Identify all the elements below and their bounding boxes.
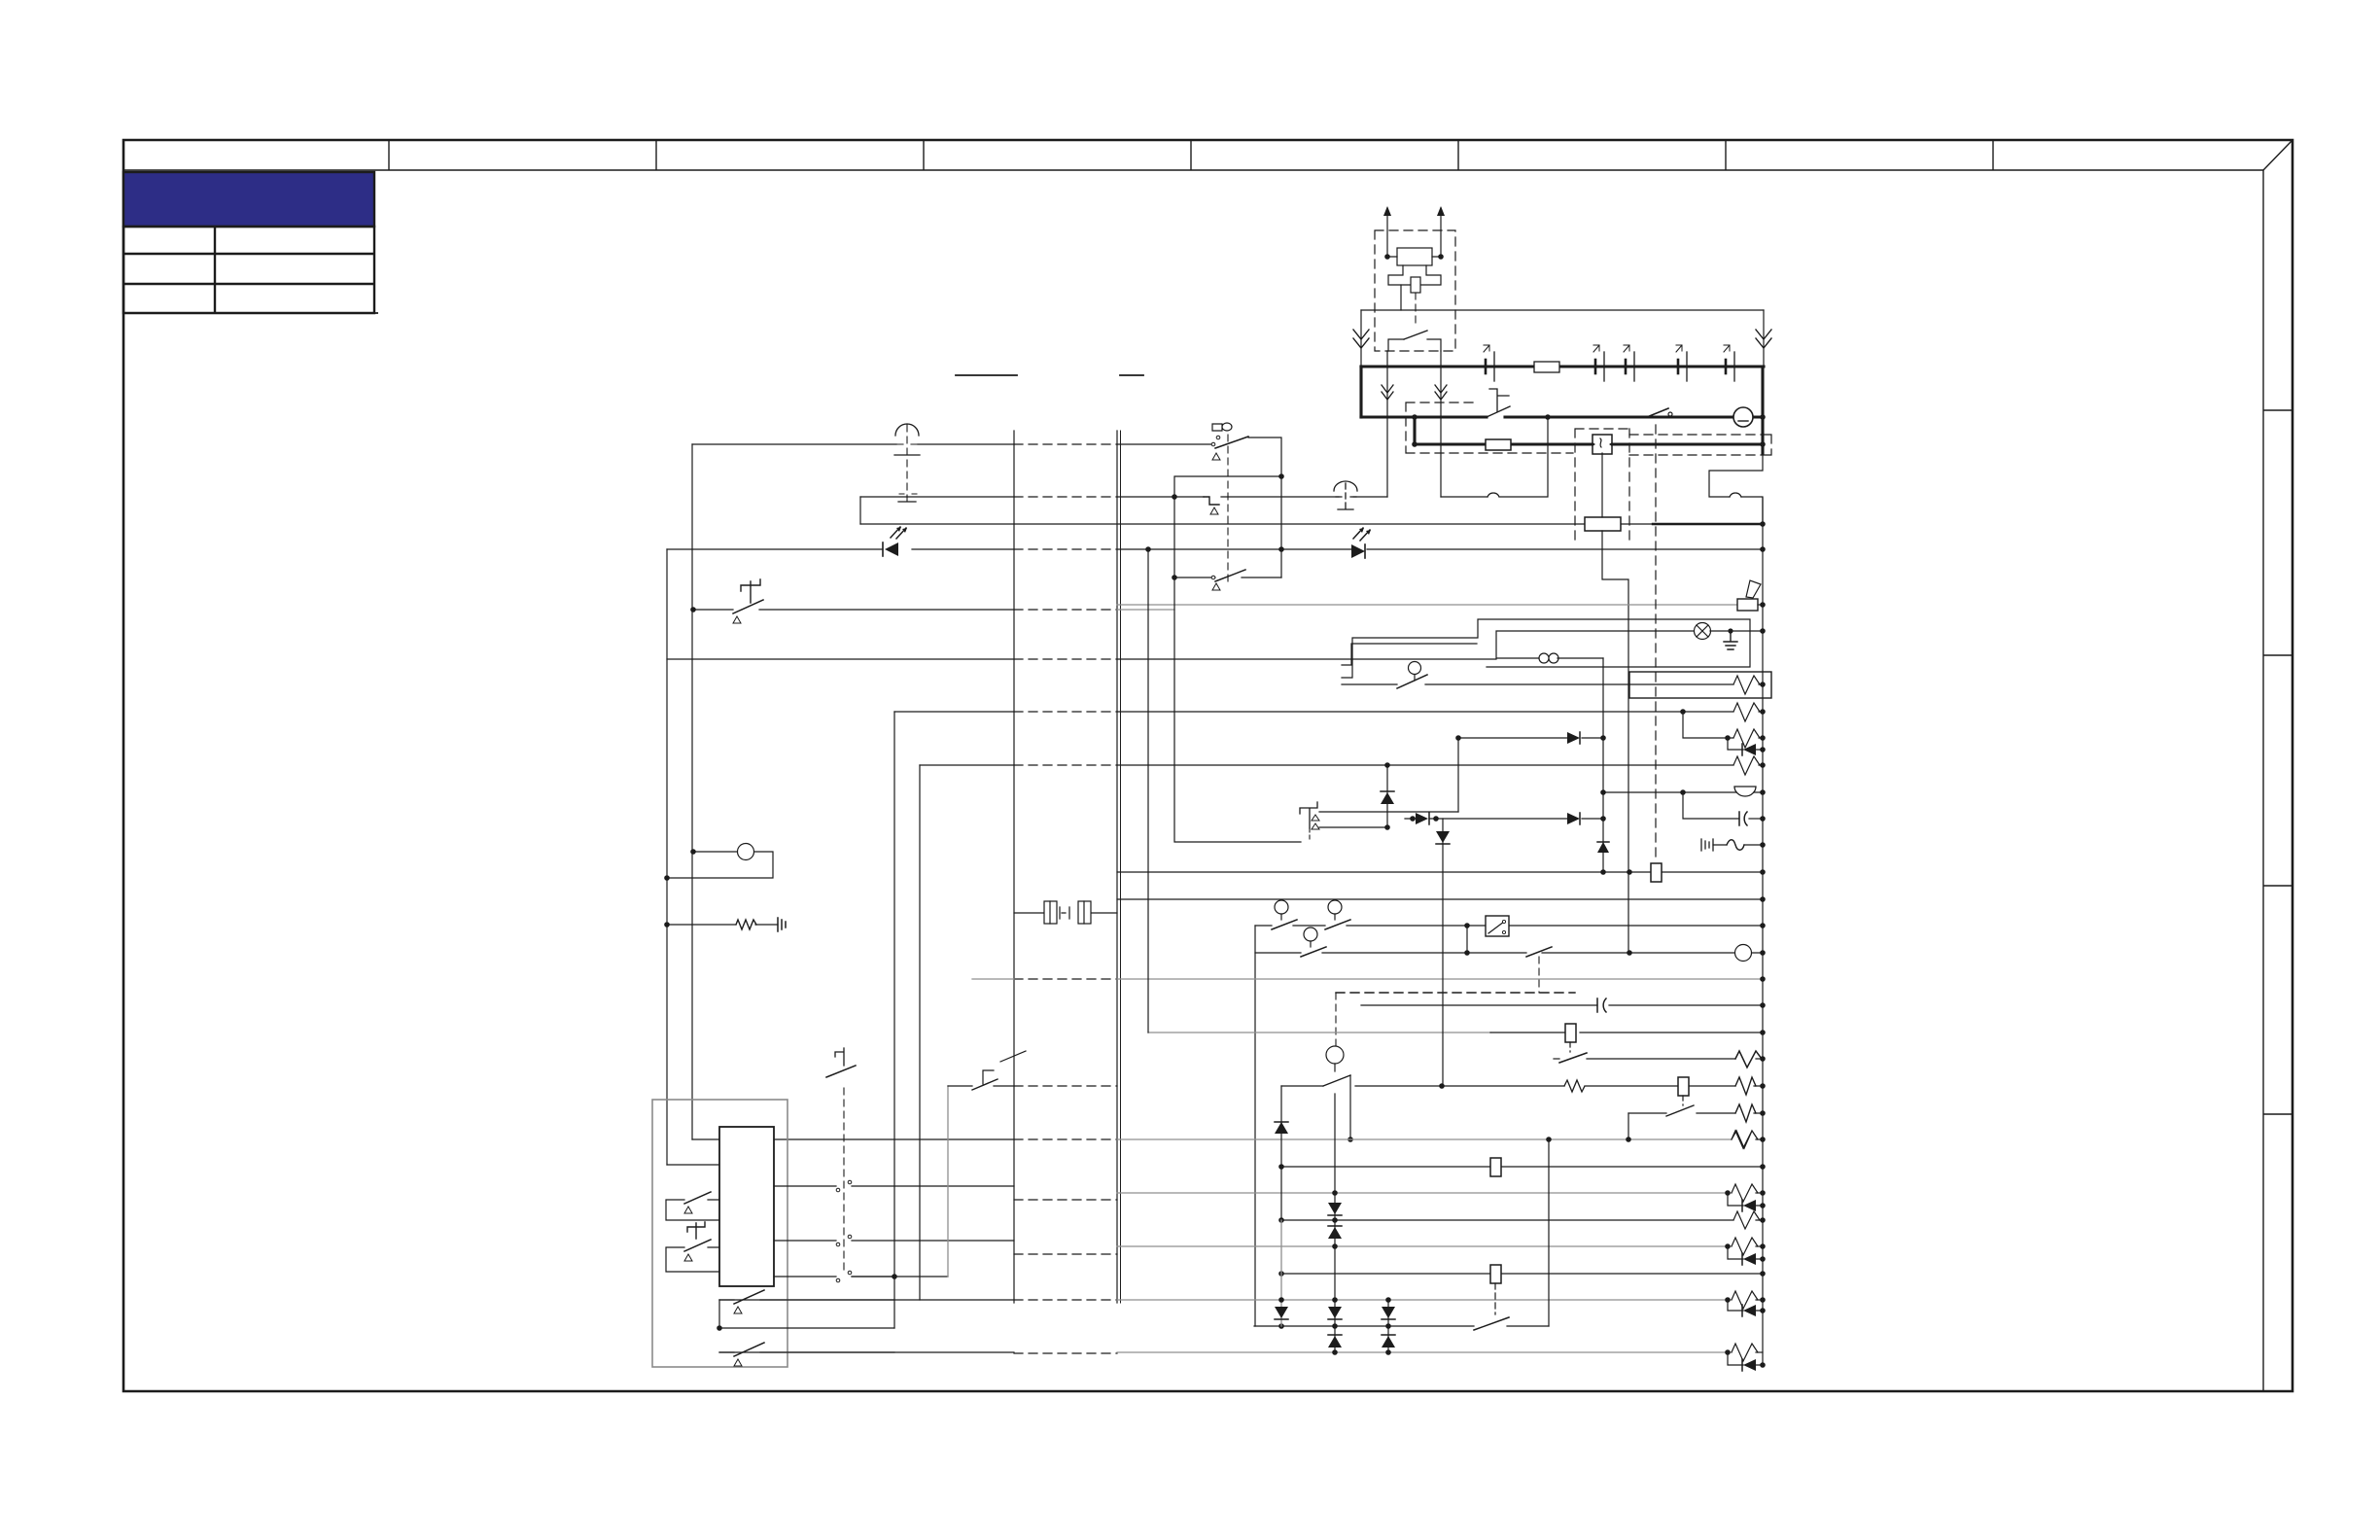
resistor box row 704 bbox=[1629, 672, 1771, 698]
wire dashed row 511 bbox=[1014, 496, 1117, 498]
ignition switch contact row457 bbox=[1215, 437, 1248, 448]
small element bbox=[1411, 277, 1420, 293]
diode column 1484 bbox=[1442, 819, 1444, 1086]
thermal sender row 869 bbox=[1713, 844, 1763, 846]
wire from ignition switch to accessory loop bbox=[1248, 437, 1281, 577]
battery cell 3 bbox=[1624, 345, 1634, 381]
title block blue banner bbox=[123, 172, 374, 227]
float sender circle bbox=[1326, 1046, 1344, 1064]
block lower switch row 1337 bbox=[719, 1299, 894, 1301]
row 1172 wire long bbox=[692, 1138, 1014, 1140]
resistor row 787 bbox=[1733, 756, 1760, 775]
node dots row A bbox=[1412, 414, 1417, 420]
twist-pair connector bbox=[1539, 653, 1558, 663]
ignition key symbol bbox=[1212, 423, 1232, 431]
row 1227 grey wire bbox=[1117, 1192, 1732, 1194]
dashed link from switch 1583 down bbox=[1538, 957, 1540, 993]
diode stack x1318 rows1337-1364 bbox=[1280, 1086, 1282, 1220]
connector column x=933 bbox=[894, 424, 920, 502]
lamp enclosure inner bbox=[1496, 631, 1696, 658]
grey wire row 622 to horn bbox=[1117, 604, 1736, 606]
diode column 1427 bbox=[1386, 765, 1388, 827]
left segment row 1313 bbox=[852, 1276, 948, 1277]
horn speaker bbox=[1737, 599, 1758, 611]
vertical from twist connector down bbox=[1602, 658, 1604, 872]
connector pair inline between harness lines bbox=[1014, 901, 1117, 924]
feeder verticals into block zone bbox=[893, 712, 895, 1328]
dashed enclosure fuse block left bbox=[1406, 402, 1573, 453]
diode branch row 1240 bbox=[1728, 1193, 1763, 1206]
switch operator T bbox=[741, 579, 760, 603]
row 787 wire bbox=[920, 764, 1733, 766]
drop 1731 to row 759 bbox=[1683, 712, 1733, 738]
diode stack x1373 rows1337-1391 bbox=[1334, 1094, 1336, 1352]
inner U body bbox=[1388, 265, 1441, 285]
wire dashed row 1290 bbox=[1014, 1253, 1117, 1255]
row 1200 wire bbox=[1281, 1166, 1763, 1168]
row 1145 wire bbox=[1628, 1112, 1763, 1114]
switch loop 1 bbox=[666, 1200, 719, 1220]
battery cell 2 bbox=[1593, 345, 1604, 381]
key switch dashed shaft bbox=[1227, 435, 1229, 583]
left drop to bus with chevron bbox=[1360, 310, 1362, 367]
right border zone ticks bbox=[2263, 410, 2292, 1114]
battery cell 1 bbox=[1484, 345, 1494, 381]
sender gauge 2 bbox=[1325, 920, 1350, 929]
dashed wire crossings inside harness bbox=[1014, 444, 1117, 1353]
lead wire up with arrow (left) bbox=[1386, 208, 1388, 257]
pushbutton switch assembly bbox=[1300, 802, 1317, 828]
row 511 wire bbox=[860, 496, 1387, 498]
link row A to row B (thick) bbox=[1413, 417, 1416, 444]
wire dashed row 1234 bbox=[1014, 1199, 1117, 1201]
dashed connector column x868 bbox=[843, 1088, 845, 1274]
lamp enclosure outline outer bbox=[1342, 619, 1750, 678]
diode branch row 771 bbox=[1728, 738, 1763, 750]
left riser x885 bbox=[859, 497, 861, 524]
frame corner mitre diagonal bbox=[2263, 140, 2292, 170]
sender circle row 980 bbox=[1735, 945, 1752, 962]
wire dashed row 1337 bbox=[1014, 1299, 1117, 1301]
relay arm dashed row1117 bbox=[1682, 1096, 1684, 1105]
diode stack x1428 rows1337-1391 bbox=[1387, 1300, 1389, 1352]
vertical x712 bbox=[691, 444, 693, 1139]
switch notch on row 511 bbox=[1204, 497, 1219, 505]
ground symbol bbox=[1728, 628, 1732, 633]
component box (sensor) bbox=[1397, 248, 1432, 265]
dashed branch box bbox=[1336, 992, 1575, 994]
row 627 switch wire bbox=[693, 609, 1014, 611]
relay coil box row539 bbox=[1585, 517, 1621, 531]
wire dashed row 565 bbox=[1014, 548, 1117, 550]
frame inner top line bbox=[123, 169, 2263, 171]
row 1007 grey wire bbox=[972, 978, 1014, 980]
switch 2 on row A bbox=[1647, 408, 1668, 417]
row 1255 wire bbox=[1281, 1219, 1763, 1221]
resistor to ground row951 bbox=[667, 924, 778, 926]
gauge loop upper left bbox=[667, 852, 773, 878]
resistor row 759 bbox=[1733, 729, 1760, 748]
middle risers bbox=[1174, 577, 1301, 842]
row 952 wire bbox=[1255, 925, 1763, 927]
dashed actuating link bbox=[1415, 293, 1417, 327]
row 1117 wire bbox=[1355, 1085, 1763, 1087]
switch on row 980 right bbox=[1526, 947, 1552, 957]
lead wire up with arrow (right) bbox=[1440, 208, 1442, 257]
dome buzzer row 815 bbox=[1734, 787, 1756, 796]
row 1310 wire bbox=[1281, 1273, 1763, 1275]
stepped feed outline bbox=[1342, 644, 1477, 665]
diode stub row 842 left bbox=[1582, 818, 1603, 820]
diode branch row 1404 bbox=[1728, 1352, 1763, 1365]
dome lamp bbox=[1695, 623, 1711, 640]
diode branch row 1348 bbox=[1728, 1300, 1763, 1311]
frame inner right line bbox=[2262, 170, 2264, 1391]
chevron arrows on battery leads bbox=[1382, 385, 1393, 400]
relay box on row 952 bbox=[1486, 916, 1509, 936]
bus down legs (thick) bbox=[1359, 367, 1362, 417]
dashed stalk to row897 box bbox=[1655, 425, 1657, 861]
underline dash right bbox=[1120, 374, 1143, 376]
accessory bus row B y=457 (thick) bbox=[1415, 442, 1763, 445]
branch 1731 row815 to row842 bbox=[1683, 792, 1739, 819]
drawing frame outer border bbox=[123, 140, 2292, 1391]
sender gauge 1 bbox=[1272, 920, 1297, 929]
wire harness vertical 2 (doubled) bbox=[1116, 431, 1118, 1303]
wire dashed row 457 bbox=[1014, 443, 1117, 445]
title block table bbox=[123, 227, 378, 313]
diode pair on 1373 rows1227-1282 bbox=[1328, 1203, 1342, 1214]
diode branch row 1295 bbox=[1728, 1246, 1763, 1259]
dashed channel around breaker bbox=[1575, 429, 1629, 544]
switch under float bbox=[1323, 1075, 1350, 1086]
row 1337 grey wire bbox=[719, 1299, 1014, 1301]
right trunk vertical bbox=[1762, 498, 1764, 1365]
link from switch down to row1172 bbox=[1627, 1113, 1629, 1139]
right drop to bus with chevron bbox=[1763, 310, 1765, 367]
row 594 wire with switch bbox=[1174, 577, 1281, 578]
battery cell 4 bbox=[1676, 345, 1687, 381]
LED right on row 565 bbox=[1351, 528, 1371, 558]
row 1282 grey wire bbox=[1117, 1245, 1732, 1247]
main feed row A y=429 (thick) bbox=[1361, 415, 1763, 418]
fuse on bus bbox=[1534, 362, 1559, 372]
row 1034 wire + capacitor bbox=[1361, 1004, 1763, 1006]
wire dashed row 1392 bbox=[1014, 1352, 1117, 1354]
row 897 wire bbox=[1117, 871, 1763, 873]
row 627 grey tail bbox=[1117, 609, 1174, 611]
row 539 accessory wire bbox=[860, 523, 1653, 525]
vertical x686 bbox=[666, 549, 668, 1165]
main battery bus (thick) bbox=[1361, 365, 1764, 367]
dashed enclosure battery unit bbox=[1375, 230, 1455, 351]
diode on vertical 1649 bbox=[1597, 842, 1609, 853]
connector column x=1384 bbox=[1334, 481, 1357, 510]
row 1364 wire bbox=[1254, 1325, 1549, 1327]
outer housing rectangle bbox=[652, 1100, 787, 1367]
gauge 3 switch bbox=[1301, 947, 1326, 957]
relay output jog bbox=[1602, 531, 1628, 953]
row 925 wire bbox=[1117, 898, 1763, 900]
switch inside battery box bbox=[1404, 331, 1427, 339]
battery cell 5 bbox=[1724, 345, 1734, 381]
wire dashed row 732 bbox=[1014, 711, 1117, 713]
control module block bbox=[719, 1127, 774, 1286]
fuse on row B bbox=[1486, 439, 1511, 450]
grey drop wire bbox=[947, 1086, 949, 1277]
wire dashed row 627 bbox=[1014, 609, 1117, 611]
top feed wire y=319 bbox=[1361, 309, 1764, 311]
row 457 ignition feed wire bbox=[692, 443, 1213, 445]
trunk staircase y466-539 bbox=[1709, 453, 1763, 524]
dashed enclosure right part bbox=[1629, 435, 1771, 455]
diode row 842 middle bbox=[1405, 818, 1567, 820]
row 1062 wire bbox=[1148, 1032, 1490, 1033]
connector loop under fuse bbox=[1441, 417, 1548, 497]
dashed link relay1310 to switch bbox=[1494, 1283, 1496, 1314]
riser 1291 bbox=[1254, 926, 1256, 1326]
switch on row A bbox=[1487, 406, 1510, 417]
switch loop 2 with T operator bbox=[666, 1247, 719, 1272]
courtesy switch with plunger row 704 bbox=[1342, 683, 1629, 685]
wire dashed row 678 bbox=[1014, 658, 1117, 660]
capacitor row 842 bbox=[1739, 812, 1747, 825]
node dots battery box bbox=[1384, 254, 1390, 260]
wire dashed row 1117 bbox=[1014, 1085, 1117, 1087]
LED left on row 565 bbox=[883, 527, 907, 556]
breaker link down bbox=[1601, 453, 1603, 517]
wires from box down bbox=[1386, 351, 1388, 497]
wire harness vertical 1 bbox=[1013, 431, 1015, 1303]
row 1391 grey wire bbox=[719, 1351, 1014, 1353]
relay arm dashed row1062->switch bbox=[1569, 1042, 1571, 1052]
row 815 wire bbox=[1603, 791, 1763, 793]
breaker box on row B bbox=[1592, 435, 1612, 454]
node dot row539 trunk bbox=[1760, 521, 1766, 527]
top border zone ticks bbox=[389, 140, 1993, 170]
wire dashed row 787 bbox=[1014, 764, 1117, 766]
connector hump on staircase bbox=[1730, 493, 1741, 497]
diode stub row 759 left bbox=[1458, 737, 1603, 739]
row 678 wire bbox=[667, 658, 1496, 660]
row 731 wire bbox=[894, 711, 1683, 713]
underline dash left bbox=[956, 374, 1017, 376]
link 1509 between rows bbox=[1466, 926, 1468, 953]
node dots row 565 bbox=[1145, 546, 1151, 552]
row 1089 wire bbox=[1587, 1058, 1763, 1060]
wire dashed row 1007 bbox=[1014, 978, 1117, 980]
block lower switch row 1391 bbox=[719, 1351, 894, 1353]
row 565 lamp feed wire bbox=[667, 548, 1763, 550]
feeder corners into block bbox=[667, 1164, 719, 1166]
riser block down bbox=[719, 1300, 894, 1328]
row 980 wire bbox=[1255, 952, 1763, 954]
block output rows to connectors bbox=[774, 1185, 1014, 1187]
ammeter/motor circle on row A bbox=[1733, 407, 1753, 427]
node dot row B right bbox=[1760, 441, 1766, 447]
switch above connector column bbox=[826, 1066, 856, 1077]
node row511 x1208 bbox=[1172, 494, 1177, 500]
wire from box to top feed line bbox=[1400, 285, 1402, 310]
